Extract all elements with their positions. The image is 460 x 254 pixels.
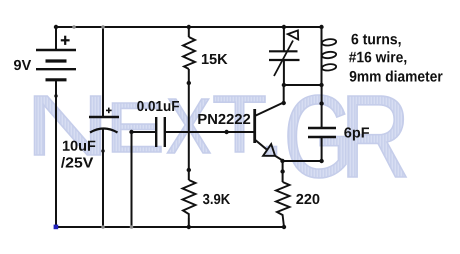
label 9V: [14, 60, 31, 70]
wire tank bottom: [284, 84, 322, 86]
node top rail battery: [54, 25, 58, 29]
wire base left: [132, 131, 157, 133]
wire 6pF top: [321, 85, 323, 128]
resistor R1 15K: [183, 37, 195, 69]
transistor Q1 emitter lead tail: [275, 156, 283, 161]
wire base right: [165, 131, 255, 133]
label 3.9K: [203, 194, 230, 204]
transistor Q1 collector lead: [255, 103, 284, 117]
label 15K: [202, 54, 228, 64]
node top rail varcap: [282, 25, 286, 29]
battery plus sign: [61, 36, 70, 45]
node top rail 10uF: [101, 25, 105, 29]
node collector: [282, 101, 286, 105]
node 220 bottom: [282, 225, 286, 229]
wire collector vertical: [283, 85, 285, 103]
label /25V: [61, 157, 93, 168]
wire bottom rail: [56, 226, 285, 228]
node 15K bottom: [187, 81, 191, 85]
node tank right: [319, 83, 323, 87]
node 6pF top: [319, 101, 323, 105]
node tank left: [282, 83, 286, 87]
node base mid: [224, 130, 228, 134]
wire battery bottom: [55, 80, 57, 227]
node rail gray 0.01uF: [130, 225, 134, 229]
wire 6pF bottom: [321, 137, 323, 161]
resistor R3 220: [276, 182, 290, 227]
node blue endpoint square: [54, 225, 59, 230]
label #16 wire: [349, 51, 406, 64]
wire divider middle: [188, 69, 190, 180]
label 0.01uF: [137, 101, 179, 111]
wire divider vertical: [188, 27, 190, 37]
wire 10uF bottom: [102, 129, 104, 227]
inductor L1 coil: [321, 27, 336, 85]
wire 0.01uF ground leg: [131, 132, 133, 227]
variable capacitor VC1 arrow: [274, 30, 298, 76]
node top rail coil: [319, 25, 323, 29]
wire divider bottom: [188, 218, 190, 227]
node top rail 15K: [187, 25, 191, 29]
capacitor C3 6pF: [308, 128, 336, 137]
node 3.9K top: [187, 168, 191, 172]
wire varcap top: [283, 27, 285, 51]
wire battery top stub: [55, 27, 57, 50]
wire 10uF top: [102, 27, 104, 117]
variable capacitor VC1 plates: [269, 51, 300, 60]
wire emitter drop: [282, 161, 284, 182]
node emitter: [280, 159, 284, 163]
label 6 turns: [352, 34, 401, 47]
node 3.9K bottom: [187, 225, 191, 229]
transistor Q1 emitter arrow: [263, 144, 275, 156]
capacitor C1 plus sign: [106, 108, 112, 114]
node base left: [129, 130, 133, 134]
label PN2222: [198, 114, 250, 124]
capacitor C1 10uF electrolytic: [89, 117, 119, 133]
node battery wire: [54, 94, 57, 97]
wire varcap bottom: [283, 60, 285, 85]
label 9mm diameter: [350, 71, 443, 82]
watermark NEXT.GR: [35, 95, 407, 178]
node 6pF bottom: [319, 159, 323, 163]
wire emitter horizontal: [283, 160, 322, 162]
label 6pF: [344, 127, 369, 140]
wire top rail: [56, 26, 322, 28]
capacitor C2 0.01uF: [156, 117, 165, 147]
node 220 top: [280, 169, 284, 173]
node 10uF wire: [101, 149, 104, 152]
transistor Q1 emitter lead: [255, 140, 267, 150]
transistor Q1 PN2222 base bar: [253, 109, 256, 143]
battery B1 9V: [36, 50, 76, 80]
node top rail gray a: [72, 25, 76, 29]
label 10uF: [63, 141, 95, 151]
resistor R2 3.9K: [183, 180, 196, 218]
label 220: [296, 194, 319, 204]
node rail gray 10uF: [101, 225, 105, 229]
